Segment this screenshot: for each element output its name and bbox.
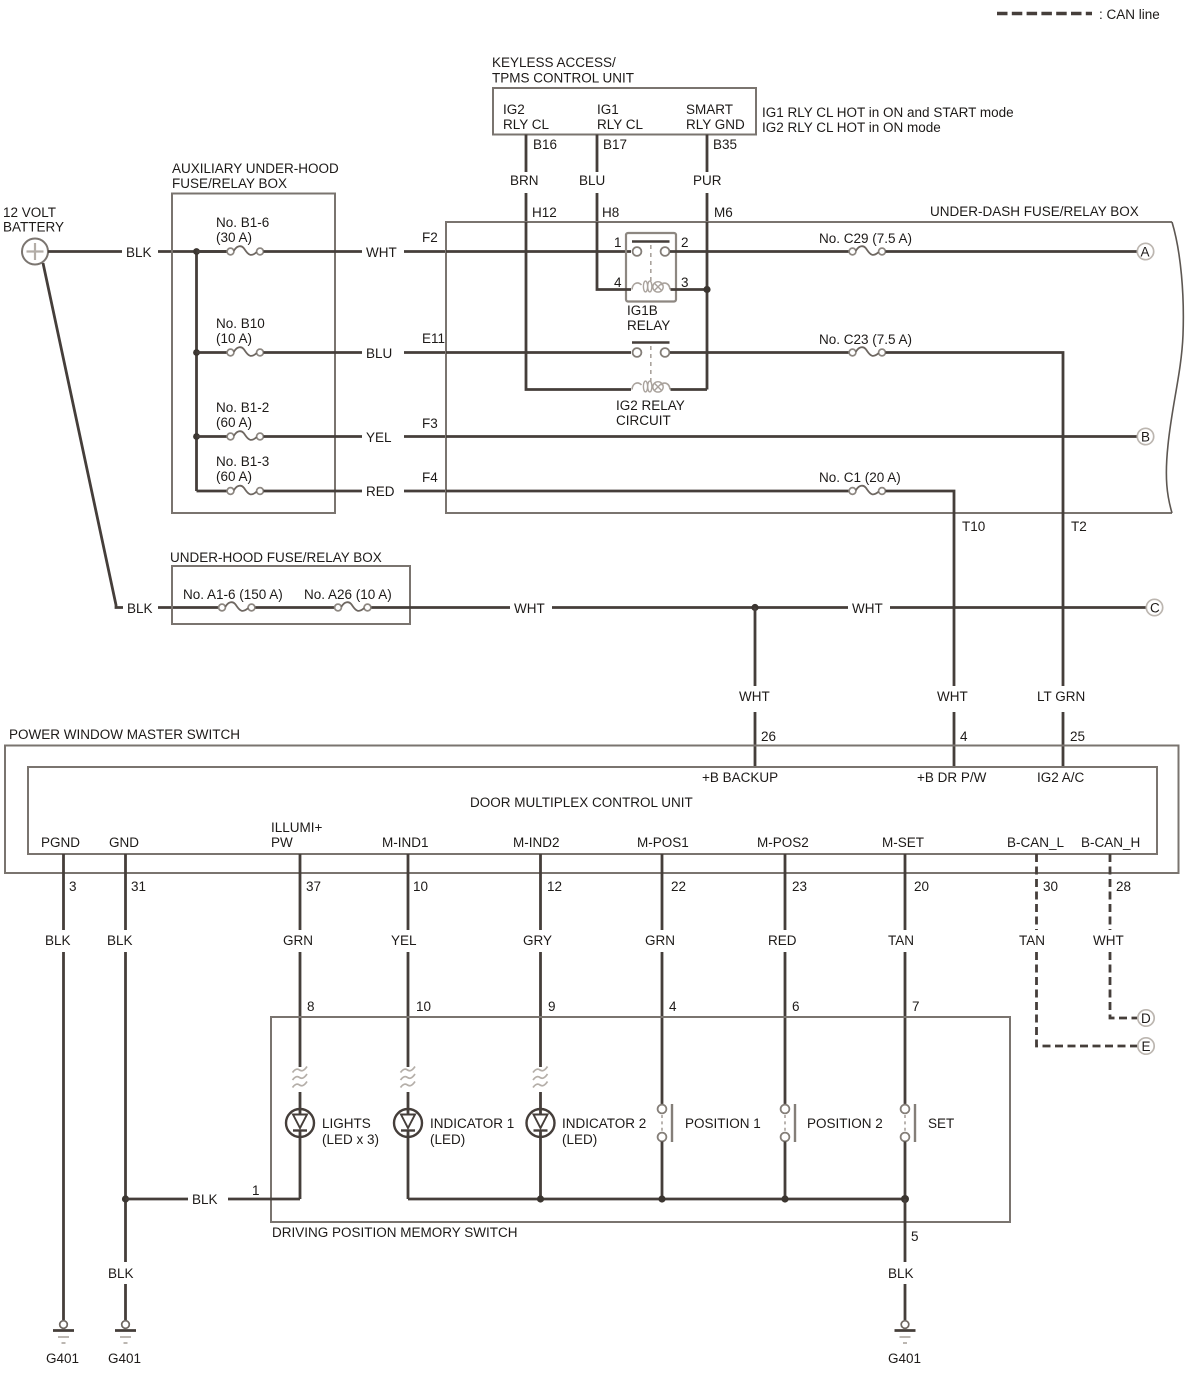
svg-text:UNDER-HOOD FUSE/RELAY BOX: UNDER-HOOD FUSE/RELAY BOX	[170, 550, 382, 565]
svg-text:YEL: YEL	[391, 933, 417, 948]
wire IG2 coil right to M6	[671, 388, 708, 391]
wire aux internal bus vertical	[195, 252, 198, 492]
svg-text:No. A26 (10 A): No. A26 (10 A)	[304, 587, 392, 602]
svg-text:BRN: BRN	[510, 173, 539, 188]
svg-text:B: B	[1141, 430, 1150, 445]
svg-text:4: 4	[669, 999, 677, 1014]
node junction bus at indicator 2	[537, 1195, 544, 1202]
svg-text:30: 30	[1043, 879, 1058, 894]
svg-text:FUSE/RELAY BOX: FUSE/RELAY BOX	[172, 176, 287, 191]
svg-text:26: 26	[761, 729, 776, 744]
svg-text:(10 A): (10 A)	[216, 331, 252, 346]
fuse No. B1-6 (30 A)	[197, 215, 363, 255]
svg-text:M-IND1: M-IND1	[382, 835, 429, 850]
svg-text:BLK: BLK	[45, 933, 71, 948]
svg-text:4: 4	[960, 729, 968, 744]
svg-text:+B BACKUP: +B BACKUP	[702, 770, 778, 785]
svg-text:DOOR MULTIPLEX CONTROL UNIT: DOOR MULTIPLEX CONTROL UNIT	[470, 795, 693, 810]
wire F3 row to connector B	[446, 435, 1137, 438]
svg-text:(60 A): (60 A)	[216, 415, 252, 430]
svg-text:B35: B35	[713, 137, 737, 152]
svg-text:3: 3	[69, 879, 77, 894]
svg-text:WHT: WHT	[514, 601, 545, 616]
svg-text:4: 4	[614, 275, 622, 290]
wire YEL F3 from aux B1-2 to under-dash	[366, 416, 446, 445]
wire BLK return from lights to GND junction pin 1	[126, 1183, 301, 1207]
svg-text:GRN: GRN	[645, 933, 675, 948]
svg-text:RELAY: RELAY	[627, 318, 670, 333]
wire M-SET pin20 TAN to DPMS pin 7	[888, 854, 920, 1104]
svg-text:WHT: WHT	[739, 689, 770, 704]
svg-text:IG1: IG1	[597, 102, 619, 117]
svg-text:TAN: TAN	[1019, 933, 1045, 948]
svg-text:INDICATOR 1: INDICATOR 1	[430, 1116, 514, 1131]
svg-text:G401: G401	[46, 1351, 79, 1366]
svg-text:T10: T10	[962, 519, 985, 534]
svg-text:IG2 RELAY: IG2 RELAY	[616, 398, 685, 413]
resistor R2 indicator 1	[401, 1067, 416, 1088]
connector B	[1137, 428, 1153, 444]
wire indicator1 led stub	[407, 1092, 410, 1116]
svg-text:DRIVING POSITION MEMORY SWITCH: DRIVING POSITION MEMORY SWITCH	[272, 1225, 518, 1240]
wire from C23 right then down to T2	[886, 353, 1064, 687]
resistor R3 indicator 2	[533, 1067, 548, 1088]
svg-text:CIRCUIT: CIRCUIT	[616, 413, 671, 428]
node junction bus at position 2	[781, 1195, 788, 1202]
svg-text:WHT: WHT	[937, 689, 968, 704]
box AUXILIARY UNDER-HOOD FUSE/RELAY BOX	[172, 161, 339, 513]
svg-text:M-POS2: M-POS2	[757, 835, 809, 850]
wire SET pin 5 BLK down to ground	[888, 1199, 919, 1320]
wire WHT branch down to pin 26	[739, 608, 770, 768]
fuse No. C1 (20 A)	[819, 470, 901, 494]
wire F4 row to fuse C1	[446, 490, 849, 493]
svg-text:IG2 A/C: IG2 A/C	[1037, 770, 1085, 785]
wire B16 BRN from keyless IG2 RLY CL to H12	[510, 135, 539, 223]
wire B17 BLU from keyless IG1 RLY CL to H8	[579, 135, 605, 223]
svg-text:LIGHTS: LIGHTS	[322, 1116, 371, 1131]
svg-text:WHT: WHT	[852, 601, 883, 616]
switch S3 SET	[901, 1104, 955, 1199]
wire battery diagonal down to under-hood box BLK	[43, 263, 223, 616]
svg-text:F3: F3	[422, 416, 438, 431]
svg-text:BLU: BLU	[579, 173, 605, 188]
control unit U1 KEYLESS ACCESS/TPMS CONTROL UNIT	[492, 55, 756, 135]
svg-text:(60 A): (60 A)	[216, 469, 252, 484]
coil of IG1B relay	[632, 281, 670, 292]
svg-text:22: 22	[671, 879, 686, 894]
wire lights led to bus	[299, 1092, 302, 1116]
wire E11 row into IG2 relay contact	[446, 351, 631, 354]
battery BT1 12 VOLT BATTERY	[3, 205, 64, 265]
svg-text:BLK: BLK	[888, 1266, 914, 1281]
svg-text:No. B10: No. B10	[216, 316, 265, 331]
svg-text:No. B1-2: No. B1-2	[216, 400, 269, 415]
svg-text:2: 2	[681, 235, 689, 250]
node junction aux bus row3	[193, 433, 200, 440]
wire PGND pin3 BLK down to ground	[45, 854, 71, 1320]
wire LT GRN T2 down to pin 25	[1037, 689, 1085, 767]
wire bus indicator1 to SET	[408, 1198, 905, 1201]
svg-text:E11: E11	[422, 331, 445, 346]
svg-text:(LED): (LED)	[562, 1132, 597, 1147]
svg-text:BLK: BLK	[126, 245, 152, 260]
svg-text:BLK: BLK	[192, 1192, 218, 1207]
fuse No. C29 (7.5 A)	[819, 231, 1137, 255]
svg-text:M6: M6	[714, 205, 733, 220]
svg-text:INDICATOR 2: INDICATOR 2	[562, 1116, 646, 1131]
svg-text:TAN: TAN	[888, 933, 914, 948]
svg-text:No. B1-6: No. B1-6	[216, 215, 269, 230]
wire H8 to relay pin 4	[597, 222, 631, 290]
svg-text:B-CAN_H: B-CAN_H	[1081, 835, 1140, 850]
switch S1 POSITION 1	[658, 1104, 761, 1199]
svg-text:BLK: BLK	[107, 933, 133, 948]
box UNDER-DASH FUSE/RELAY BOX	[446, 204, 1183, 513]
fuse No. B1-2 (60 A)	[197, 400, 363, 440]
svg-text:37: 37	[306, 879, 321, 894]
coil of IG2 relay	[632, 381, 670, 392]
node junction bus at SET pin 5	[901, 1195, 909, 1203]
svg-text:IG2 RLY CL HOT in ON mode: IG2 RLY CL HOT in ON mode	[762, 120, 941, 135]
svg-text:RLY GND: RLY GND	[686, 117, 745, 132]
svg-text:POSITION 2: POSITION 2	[807, 1116, 883, 1131]
svg-text:(LED x 3): (LED x 3)	[322, 1132, 379, 1147]
svg-text:No. B1-3: No. B1-3	[216, 454, 269, 469]
svg-text:12: 12	[547, 879, 562, 894]
node junction aux bus row1	[193, 248, 200, 255]
svg-text:WHT: WHT	[1093, 933, 1124, 948]
connector C	[1146, 599, 1162, 615]
node junction aux bus row2	[193, 349, 200, 356]
wire B-CAN_H pin28 WHT CAN line to connector D	[1093, 854, 1137, 1018]
LED D3 INDICATOR 2 (LED)	[527, 1109, 647, 1199]
svg-text:TPMS CONTROL UNIT: TPMS CONTROL UNIT	[492, 71, 634, 86]
LED D1 LIGHTS (LED x 3)	[286, 1109, 379, 1199]
wire B35 PUR from keyless SMART RLY GND to M6	[693, 135, 722, 223]
svg-text:F2: F2	[422, 230, 438, 245]
resistor R1 lights	[293, 1067, 308, 1088]
connector E	[1138, 1038, 1154, 1054]
svg-text:SET: SET	[928, 1116, 954, 1131]
svg-text:28: 28	[1116, 879, 1131, 894]
svg-text:RED: RED	[366, 484, 395, 499]
box DRIVING POSITION MEMORY SWITCH	[271, 1017, 1010, 1240]
svg-text:B-CAN_L: B-CAN_L	[1007, 835, 1065, 850]
wire ILLUMI+PW pin37 GRN to DPMS pin 8	[283, 854, 315, 1067]
node junction GND / DPMS return	[122, 1195, 129, 1202]
svg-text:BLU: BLU	[366, 346, 392, 361]
svg-text:YEL: YEL	[366, 430, 392, 445]
svg-text:POWER WINDOW MASTER SWITCH: POWER WINDOW MASTER SWITCH	[9, 727, 240, 742]
wire M-POS1 pin22 GRN to DPMS pin 4	[645, 854, 677, 1104]
svg-text:No. C23 (7.5 A): No. C23 (7.5 A)	[819, 332, 912, 347]
svg-text:B16: B16	[533, 137, 557, 152]
svg-text:23: 23	[792, 879, 807, 894]
svg-text:25: 25	[1070, 729, 1085, 744]
wire battery BLK to auxiliary box	[48, 245, 232, 260]
svg-text:LT GRN: LT GRN	[1037, 689, 1085, 704]
relay K1 IG1B RELAY	[614, 233, 689, 333]
svg-text:IG2: IG2	[503, 102, 525, 117]
svg-text:RLY CL: RLY CL	[503, 117, 550, 132]
svg-text:AUXILIARY UNDER-HOOD: AUXILIARY UNDER-HOOD	[172, 161, 339, 176]
box UNDER-HOOD FUSE/RELAY BOX	[170, 550, 410, 624]
svg-text:20: 20	[914, 879, 929, 894]
svg-text:BATTERY: BATTERY	[3, 220, 64, 235]
ground G401 middle (GND)	[108, 1321, 141, 1366]
svg-text:UNDER-DASH FUSE/RELAY BOX: UNDER-DASH FUSE/RELAY BOX	[930, 204, 1139, 219]
svg-text:3: 3	[681, 275, 689, 290]
svg-text:+B DR P/W: +B DR P/W	[917, 770, 987, 785]
node junction WHT branch	[751, 604, 758, 611]
svg-text:B17: B17	[603, 137, 627, 152]
svg-text:G401: G401	[888, 1351, 921, 1366]
ground G401 left (PGND)	[46, 1321, 79, 1366]
wire H12 down to IG2 coil	[526, 222, 631, 390]
svg-text:SMART: SMART	[686, 102, 733, 117]
svg-text:POSITION 1: POSITION 1	[685, 1116, 761, 1131]
wire indicator2 led stub	[539, 1092, 542, 1116]
wire M-POS2 pin23 RED to DPMS pin 6	[768, 854, 800, 1104]
wire WHT to junction and connector C	[514, 601, 1146, 616]
svg-text:H12: H12	[532, 205, 557, 220]
switch S2 POSITION 2	[781, 1104, 883, 1199]
wire RED F4 from aux B1-3 to under-dash	[366, 470, 446, 499]
svg-text:6: 6	[792, 999, 800, 1014]
svg-text:BLK: BLK	[108, 1266, 134, 1281]
svg-text:A: A	[1141, 245, 1150, 260]
svg-text:GRN: GRN	[283, 933, 313, 948]
wire WHT F2 from aux B1-6 to under-dash	[366, 230, 446, 260]
relay K2 IG2 RELAY CIRCUIT contact	[616, 343, 685, 429]
svg-text:1: 1	[252, 1183, 260, 1198]
svg-text:M-IND2: M-IND2	[513, 835, 560, 850]
svg-text:BLK: BLK	[127, 601, 153, 616]
svg-text:(30 A): (30 A)	[216, 230, 252, 245]
svg-text:WHT: WHT	[366, 245, 397, 260]
svg-text:1: 1	[614, 235, 622, 250]
svg-text:T2: T2	[1071, 519, 1087, 534]
wire BLU E11 from aux B10 to under-dash	[366, 331, 446, 361]
wire relay pin 3 to M6 node	[671, 288, 708, 291]
svg-text:No. A1-6 (150 A): No. A1-6 (150 A)	[183, 587, 283, 602]
fuse No. A1-6 (150 A)	[183, 587, 335, 611]
svg-text:ILLUMI+: ILLUMI+	[271, 820, 323, 835]
wire IG2 contact to fuse C23	[670, 351, 849, 354]
fuse No. B1-3 (60 A)	[197, 454, 363, 494]
ground G401 right (SET)	[888, 1321, 921, 1366]
svg-text:D: D	[1141, 1011, 1151, 1026]
svg-text:RLY CL: RLY CL	[597, 117, 644, 132]
fuse No. A26 (10 A)	[304, 587, 510, 611]
svg-text:8: 8	[307, 999, 315, 1014]
CAN line legend dashed sample	[997, 12, 1092, 15]
svg-text:PUR: PUR	[693, 173, 722, 188]
svg-text:7: 7	[912, 999, 920, 1014]
LED D2 INDICATOR 1 (LED)	[394, 1109, 514, 1199]
svg-text:F4: F4	[422, 470, 438, 485]
node junction bus at position 1	[658, 1195, 665, 1202]
node junction pin3/M6	[703, 286, 710, 293]
svg-text:E: E	[1142, 1039, 1151, 1054]
svg-text:5: 5	[911, 1229, 919, 1244]
wire from C1 right then down to T10	[886, 491, 955, 686]
svg-text:PGND: PGND	[41, 835, 80, 850]
svg-text:M-SET: M-SET	[882, 835, 924, 850]
svg-text:10: 10	[416, 999, 431, 1014]
connector A	[1137, 243, 1153, 259]
svg-text:GND: GND	[109, 835, 139, 850]
svg-text:IG1 RLY CL HOT in ON and START: IG1 RLY CL HOT in ON and START mode	[762, 105, 1014, 120]
wire M6 vertical into box	[706, 222, 709, 390]
svg-text:No. C29 (7.5 A): No. C29 (7.5 A)	[819, 231, 912, 246]
svg-text:KEYLESS ACCESS/: KEYLESS ACCESS/	[492, 55, 616, 70]
svg-text:31: 31	[131, 879, 146, 894]
svg-text:IG1B: IG1B	[627, 303, 658, 318]
fuse No. C23 (7.5 A)	[819, 332, 912, 356]
wire M-IND2 pin12 GRY to DPMS pin 9	[523, 854, 556, 1067]
svg-text:M-POS1: M-POS1	[637, 835, 689, 850]
svg-text:PW: PW	[271, 835, 293, 850]
wire B-CAN_L pin30 TAN CAN line to connector E	[1019, 854, 1137, 1046]
wire GND pin31 BLK down to ground	[107, 854, 134, 1320]
svg-text:C: C	[1150, 601, 1160, 616]
svg-text:H8: H8	[602, 205, 619, 220]
control unit U2 DOOR MULTIPLEX CONTROL UNIT inner box	[28, 767, 1157, 854]
svg-text:10: 10	[413, 879, 428, 894]
svg-text:No. C1 (20 A): No. C1 (20 A)	[819, 470, 901, 485]
fuse No. B10 (10 A)	[197, 316, 363, 356]
svg-text:(LED): (LED)	[430, 1132, 465, 1147]
connector D	[1138, 1010, 1154, 1026]
svg-text:RED: RED	[768, 933, 797, 948]
svg-text:G401: G401	[108, 1351, 141, 1366]
wire relay pin2 to fuse C29	[670, 250, 849, 253]
svg-text:9: 9	[548, 999, 556, 1014]
svg-text:12 VOLT: 12 VOLT	[3, 205, 56, 220]
wire WHT T10 down to pin 4	[937, 689, 968, 767]
wire F2 row into relay pin 1	[446, 250, 631, 253]
box POWER WINDOW MASTER SWITCH outer	[5, 727, 1179, 873]
svg-text:GRY: GRY	[523, 933, 552, 948]
svg-text:: CAN line: : CAN line	[1099, 7, 1160, 22]
wire M-IND1 pin10 YEL to DPMS pin 10	[391, 854, 431, 1067]
